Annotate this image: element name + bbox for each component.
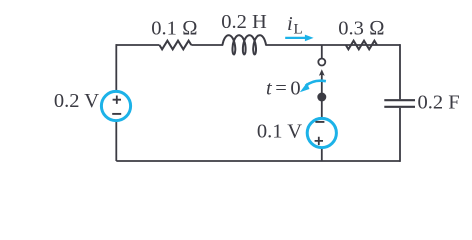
inductor L 0.2 H bbox=[223, 35, 267, 54]
svg-text:i: i bbox=[287, 13, 293, 35]
switch blade arrowhead bbox=[319, 69, 325, 76]
svg-text:0.1 V: 0.1 V bbox=[257, 121, 302, 143]
svg-text:t = 0: t = 0 bbox=[266, 78, 300, 100]
svg-text:L: L bbox=[294, 22, 303, 38]
resistor R 0.3 ohm bbox=[346, 41, 377, 50]
wire left rail bbox=[115, 44, 117, 161]
wire source to bottom bbox=[321, 149, 323, 162]
svg-text:0.3 Ω: 0.3 Ω bbox=[338, 18, 385, 40]
svg-text:0.1 Ω: 0.1 Ω bbox=[151, 18, 198, 40]
switch closing arrow cyan bbox=[306, 81, 326, 86]
switch junction dot bbox=[317, 93, 326, 102]
switch closing arrowhead cyan bbox=[300, 83, 310, 92]
V1 minus sign bbox=[112, 113, 121, 115]
switch blade arrow line bbox=[321, 75, 323, 96]
voltage source V2 0.1 V circle bbox=[307, 118, 336, 147]
svg-text:0.2 V: 0.2 V bbox=[54, 90, 99, 112]
capacitor C 0.2 F plates bbox=[384, 100, 415, 107]
wire top rail bbox=[116, 44, 400, 46]
wire switch stub bbox=[321, 45, 323, 58]
wire right rail bbox=[399, 44, 401, 162]
svg-text:0.2 F: 0.2 F bbox=[418, 91, 460, 113]
current iL arrowhead cyan bbox=[305, 35, 314, 42]
wire bottom rail bbox=[116, 160, 400, 162]
wire dot to source bbox=[321, 96, 323, 118]
svg-text:0.2 H: 0.2 H bbox=[221, 11, 267, 33]
V2 plus sign bbox=[315, 137, 323, 145]
switch open terminal circle bbox=[318, 59, 325, 66]
V1 plus sign bbox=[113, 96, 121, 104]
resistor R 0.1 ohm bbox=[159, 41, 191, 50]
V2 minus sign bbox=[315, 121, 324, 123]
voltage source V1 0.2 V circle bbox=[101, 91, 130, 120]
current iL arrow cyan bbox=[285, 37, 306, 39]
